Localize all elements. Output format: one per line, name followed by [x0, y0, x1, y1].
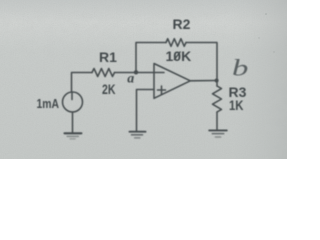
- node b junction: [215, 79, 219, 83]
- wire: current source bottom to ground: [72, 112, 74, 133]
- svg-text:1K: 1K: [229, 97, 244, 113]
- wire: R3 to ground: [216, 112, 218, 130]
- node a junction: [134, 70, 138, 74]
- op-amp plus sign: [158, 86, 166, 94]
- svg-text:10K: 10K: [166, 48, 192, 64]
- current source I1: [63, 92, 83, 112]
- dust specks: [265, 13, 267, 15]
- resistor R3: [213, 86, 222, 112]
- wire: R2 right end down to output node: [186, 43, 217, 87]
- svg-text:a: a: [127, 72, 134, 87]
- paper background: [0, 0, 287, 159]
- svg-text:2K: 2K: [102, 81, 116, 97]
- svg-text:R1: R1: [99, 49, 117, 65]
- wire: node a up and across to R2: [136, 43, 166, 73]
- ground (under R3): [209, 129, 227, 131]
- current source arrow line: [71, 93, 73, 100]
- wire: op-amp output to node b: [190, 80, 216, 82]
- ground (under current source): [65, 132, 82, 134]
- svg-text:R2: R2: [173, 16, 191, 32]
- wire: op-amp plus input to ground: [137, 90, 155, 132]
- resistor R1: [92, 69, 115, 77]
- svg-text:b: b: [232, 56, 248, 81]
- wire: R1 to op-amp inverting input: [115, 72, 155, 74]
- op-amp U1: [154, 64, 190, 99]
- wire: current source top to R1: [72, 73, 93, 93]
- resistor R2: [166, 39, 186, 47]
- ground (op-amp plus input): [130, 131, 146, 133]
- svg-text:1mA: 1mA: [37, 96, 60, 111]
- op-amp minus sign: [155, 72, 165, 74]
